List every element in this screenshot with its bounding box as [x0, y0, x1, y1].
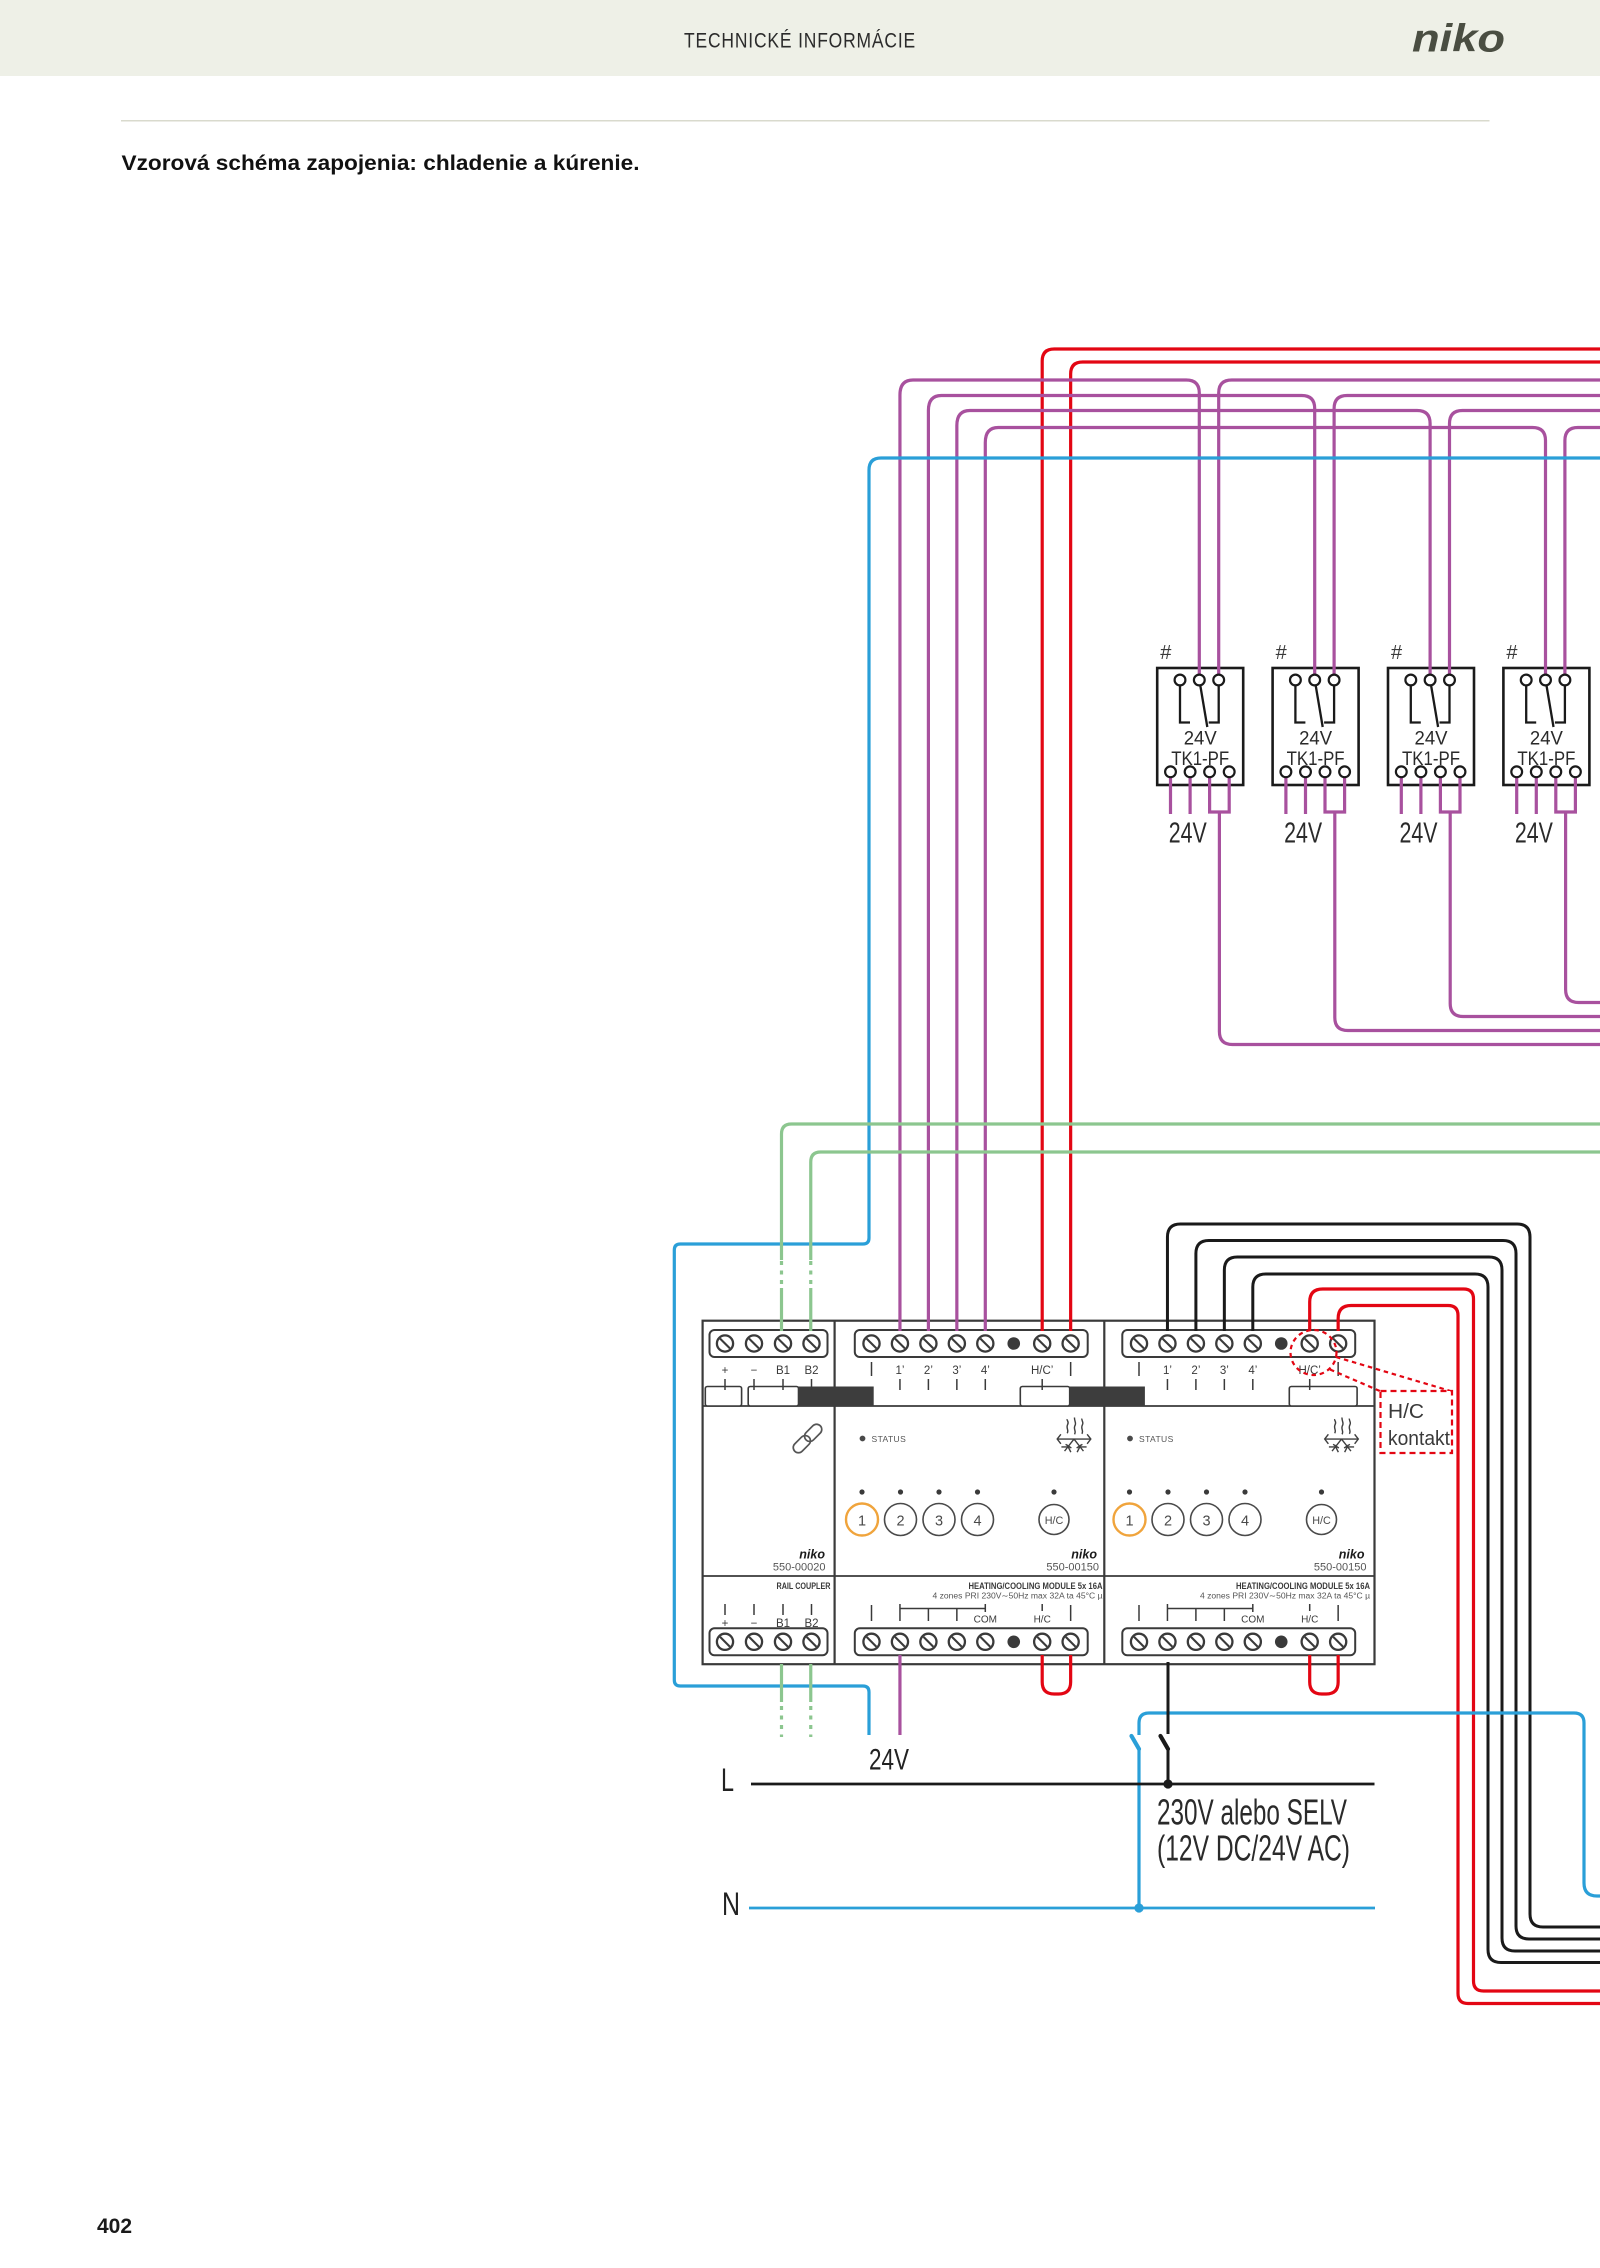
wire purple zone 1' from module M2 to valve TK1	[900, 380, 1199, 1331]
L line	[721, 1762, 1375, 1798]
wire purple valve TK1 output to right edge	[1219, 380, 1600, 678]
wire purple TK3 bottom stubs 24V	[1401, 776, 1421, 814]
M3 top terminal labels 1' 2' 3' 4' H/C'	[1139, 1362, 1338, 1390]
H/C kontakt callout leader lines	[1330, 1357, 1451, 1392]
svg-text:B1: B1	[776, 1365, 790, 1377]
black switch lever	[1161, 1736, 1169, 1749]
230V alebo SELV annotation	[1157, 1792, 1350, 1869]
wire purple zone 2' from module M2 to valve TK2	[928, 396, 1314, 1332]
wire purple valve TK3 output to right edge	[1450, 411, 1600, 679]
svg-text:N: N	[722, 1886, 740, 1922]
TK2 changeover switch symbol	[1295, 686, 1334, 728]
wire purple TK4 bottom stubs 24V	[1517, 776, 1537, 814]
TK3 changeover switch symbol	[1411, 686, 1450, 728]
M2 bottom terminal strip	[855, 1628, 1088, 1655]
wire purple valve TK4 output to right edge	[1565, 428, 1600, 679]
wire purple valve TK2 output to right edge	[1334, 396, 1600, 679]
svg-text:24V: 24V	[1515, 818, 1553, 850]
svg-text:RAIL COUPLER: RAIL COUPLER	[777, 1581, 831, 1591]
wire blue N feed with switch to right edge	[1139, 1713, 1600, 1908]
M1 niko brand + type number	[773, 1548, 826, 1574]
TK3 pin circles	[1396, 675, 1466, 778]
svg-text:4: 4	[1241, 1514, 1249, 1530]
N junction node	[1134, 1903, 1143, 1912]
valve actuator box TK4 (TK1-PF)	[1503, 668, 1589, 785]
wire purple TK1 bottom stubs 24V	[1171, 776, 1191, 814]
wire green bus B1 (rail coupler to right edge) with break	[782, 1124, 1600, 1331]
header band	[0, 0, 1600, 76]
svg-text:H/C: H/C	[1301, 1615, 1318, 1626]
M3 top terminal strip	[1122, 1330, 1355, 1357]
wire purple TK2 merged return to right edge	[1325, 776, 1600, 1031]
svg-text:24V: 24V	[1299, 728, 1332, 750]
svg-text:−: −	[751, 1618, 758, 1630]
svg-text:TK1-PF: TK1-PF	[1517, 749, 1575, 770]
svg-text:STATUS: STATUS	[1139, 1434, 1174, 1444]
svg-text:niko: niko	[799, 1548, 825, 1562]
wire green B1 below module (continuation)	[780, 1664, 783, 1737]
svg-text:2: 2	[1164, 1514, 1172, 1530]
M1 bottom terminal strip	[710, 1628, 828, 1655]
TK1 changeover switch symbol	[1180, 686, 1219, 728]
svg-text:2’: 2’	[924, 1365, 933, 1377]
M1 chain link icon	[791, 1422, 824, 1455]
svg-text:3’: 3’	[1220, 1365, 1229, 1377]
M3 STATUS led label	[1127, 1434, 1174, 1444]
svg-text:HEATING/COOLING MODULE 5x 16A: HEATING/COOLING MODULE 5x 16A	[1236, 1581, 1370, 1591]
wire red module M3 last terminal (loop to right edge)	[1338, 1306, 1600, 2004]
svg-text:niko: niko	[1339, 1548, 1365, 1562]
module divider M2/M3	[1103, 1321, 1105, 1665]
svg-text:4 zones PRI 230V∼50Hz max 3: 4 zones PRI 230V∼50Hz max 32A ta 45°C µ	[1200, 1592, 1370, 1601]
M2 H/C button	[1039, 1489, 1069, 1534]
svg-text:230V alebo SELV: 230V alebo SELV	[1157, 1792, 1347, 1833]
DIN notch M1 left	[705, 1387, 741, 1407]
svg-text:550-00150: 550-00150	[1046, 1562, 1099, 1574]
valve actuator box TK1 (TK1-PF)	[1157, 668, 1243, 785]
svg-text:(12V DC/24V AC): (12V DC/24V AC)	[1157, 1828, 1350, 1869]
wire black zone 3' of module M3 (loop to right edge)	[1224, 1257, 1600, 1951]
svg-text:2: 2	[896, 1514, 904, 1530]
svg-text:+: +	[722, 1618, 729, 1630]
wire black L feed with switch (module M3 COM)	[1167, 1662, 1170, 1784]
wire purple 24V supply to module M2 COM	[898, 1655, 901, 1735]
separator rule	[121, 120, 1490, 122]
M3 zone buttons 1-4	[1114, 1489, 1262, 1535]
TK4 changeover switch symbol	[1526, 686, 1565, 728]
svg-text:#: #	[1276, 642, 1288, 664]
module body top line	[703, 1405, 1375, 1407]
L junction node	[1163, 1779, 1172, 1788]
svg-text:4’: 4’	[1248, 1365, 1257, 1377]
svg-text:B2: B2	[804, 1618, 818, 1630]
M3 bottom terminal strip	[1122, 1628, 1355, 1655]
wire black zone 4' of module M3 (loop to right edge)	[1253, 1274, 1600, 1963]
M3 heating/cooling icon	[1325, 1418, 1359, 1453]
DIN clip tab M2/M3	[1070, 1387, 1145, 1407]
svg-text:4’: 4’	[981, 1365, 990, 1377]
svg-text:COM: COM	[974, 1615, 997, 1626]
M2 top terminal strip	[855, 1330, 1088, 1357]
M2 STATUS led label	[860, 1434, 907, 1444]
svg-text:−: −	[751, 1365, 758, 1377]
svg-text:#: #	[1160, 642, 1172, 664]
svg-text:L: L	[721, 1762, 734, 1798]
wire red module M3 H/C' (loop to right edge)	[1310, 1289, 1600, 1991]
svg-text:#: #	[1391, 642, 1403, 664]
svg-text:H/C: H/C	[1034, 1615, 1051, 1626]
wire red H/C' supply 2 (module M2 to right edge)	[1071, 362, 1600, 1331]
M3 H/C button	[1307, 1489, 1337, 1534]
svg-text:+: +	[722, 1365, 729, 1377]
svg-text:niko: niko	[1071, 1548, 1097, 1562]
M3 niko brand + type number	[1314, 1548, 1367, 1574]
svg-text:3: 3	[935, 1514, 943, 1530]
DIN clip tab M1/M2	[799, 1387, 874, 1407]
svg-text:4 zones PRI 230V∼50Hz max 3: 4 zones PRI 230V∼50Hz max 32A ta 45°C µ	[933, 1592, 1103, 1601]
wire black zone 2' of module M3 (loop to right edge)	[1196, 1241, 1600, 1940]
valve actuator box TK3 (TK1-PF)	[1388, 668, 1474, 785]
wire green B2 below module (continuation)	[809, 1664, 812, 1737]
svg-text:B1: B1	[776, 1618, 790, 1630]
svg-text:24V: 24V	[1184, 728, 1217, 750]
M2 heating/cooling icon	[1057, 1418, 1091, 1453]
wire purple TK3 merged return to right edge	[1440, 776, 1600, 1017]
DIN notch M3	[1289, 1387, 1357, 1407]
svg-text:1: 1	[1125, 1514, 1133, 1530]
svg-text:B2: B2	[804, 1365, 818, 1377]
svg-text:Vzorová schéma zapojenia: chla: Vzorová schéma zapojenia: chladenie a kú…	[122, 151, 640, 175]
svg-text:1: 1	[858, 1514, 866, 1530]
wire purple zone 4' from module M2 to valve TK4	[985, 428, 1545, 1332]
svg-text:kontakt: kontakt	[1388, 1428, 1450, 1450]
svg-text:550-00020: 550-00020	[773, 1562, 826, 1574]
M3 bottom labels COM H/C with bus bracket	[1139, 1604, 1338, 1626]
svg-text:TK1-PF: TK1-PF	[1287, 749, 1345, 770]
blue switch lever	[1132, 1736, 1140, 1749]
valve actuator box TK2 (TK1-PF)	[1273, 668, 1359, 785]
wire black zone 1' of module M3 (loop to right edge)	[1167, 1224, 1600, 1927]
svg-text:TECHNICKÉ INFORMÁCIE: TECHNICKÉ INFORMÁCIE	[684, 30, 916, 53]
M2 zone buttons 1-4	[846, 1489, 994, 1535]
svg-text:TK1-PF: TK1-PF	[1402, 749, 1460, 770]
svg-text:STATUS: STATUS	[872, 1434, 907, 1444]
svg-text:#: #	[1506, 642, 1518, 664]
svg-text:3: 3	[1202, 1514, 1210, 1530]
svg-text:TK1-PF: TK1-PF	[1171, 749, 1229, 770]
TK2 pin circles	[1281, 675, 1351, 778]
DIN rail module assembly outline	[703, 1321, 1375, 1665]
svg-text:1’: 1’	[1163, 1365, 1172, 1377]
wire green bus B2 (rail coupler to right edge) with break	[811, 1152, 1600, 1331]
M3 name HEATING/COOLING MODULE	[1200, 1581, 1370, 1601]
svg-text:4: 4	[973, 1514, 981, 1530]
M2 top terminal labels 1' 2' 3' 4' H/C'	[872, 1362, 1071, 1390]
DIN notch M1 right	[748, 1387, 798, 1407]
svg-text:niko: niko	[1412, 18, 1505, 61]
svg-text:24V: 24V	[1400, 818, 1438, 850]
wire purple TK2 bottom stubs 24V	[1286, 776, 1306, 814]
TK1 pin circles	[1165, 675, 1235, 778]
svg-text:H/C’: H/C’	[1299, 1365, 1321, 1377]
wire purple TK1 merged return to right edge	[1210, 776, 1600, 1045]
svg-text:HEATING/COOLING MODULE 5x 16A: HEATING/COOLING MODULE 5x 16A	[969, 1581, 1103, 1591]
svg-text:1’: 1’	[895, 1365, 904, 1377]
M1 bottom terminal labels + - B1 B2	[722, 1604, 819, 1630]
svg-text:H/C: H/C	[1388, 1401, 1424, 1423]
module lower section divider	[703, 1575, 1375, 1577]
svg-text:H/C: H/C	[1045, 1515, 1064, 1527]
TK4 pin circles	[1511, 675, 1581, 778]
wire blue 24V return bus (right edge, around rail coupler, to 24V supply)	[674, 458, 1600, 1735]
H/C kontakt callout circle	[1291, 1330, 1337, 1375]
svg-text:24V: 24V	[1284, 818, 1322, 850]
wire purple zone 3' from module M2 to valve TK3	[957, 411, 1430, 1332]
module divider M1/M2	[833, 1321, 835, 1665]
wire red H/C' supply 1 (module M2 to right edge)	[1042, 349, 1600, 1331]
svg-text:24V: 24V	[1530, 728, 1563, 750]
H/C kontakt dashed box	[1381, 1391, 1453, 1453]
N line	[722, 1886, 1375, 1922]
svg-text:550-00150: 550-00150	[1314, 1562, 1367, 1574]
wire red H/C loop module M3	[1310, 1655, 1338, 1694]
M1 top terminal strip	[710, 1330, 828, 1357]
M2 niko brand + type number	[1046, 1548, 1099, 1574]
svg-text:3’: 3’	[952, 1365, 961, 1377]
M2 bottom labels COM H/C with bus bracket	[872, 1604, 1071, 1626]
wire red H/C loop module M2	[1042, 1655, 1070, 1694]
svg-text:24V: 24V	[1169, 818, 1207, 850]
wire purple TK4 merged return to right edge	[1556, 776, 1600, 1003]
svg-text:24V: 24V	[869, 1744, 909, 1777]
svg-text:24V: 24V	[1415, 728, 1448, 750]
svg-text:COM: COM	[1241, 1615, 1264, 1626]
svg-text:H/C’: H/C’	[1031, 1365, 1053, 1377]
svg-text:402: 402	[97, 2215, 132, 2238]
svg-text:H/C: H/C	[1312, 1515, 1331, 1527]
svg-text:2’: 2’	[1191, 1365, 1200, 1377]
M1 top terminal labels + - B1 B2	[722, 1365, 819, 1390]
H/C kontakt label	[1388, 1401, 1450, 1450]
M2 name HEATING/COOLING MODULE	[933, 1581, 1103, 1601]
DIN notch M2	[1020, 1387, 1069, 1407]
